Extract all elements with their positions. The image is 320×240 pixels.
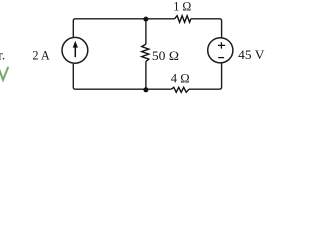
- svg-text:1 Ω: 1 Ω: [173, 0, 191, 14]
- wire: bottom wire left part and bottom-left corner up to current source: [73, 64, 171, 89]
- wire: middle branch upper segment: [145, 19, 147, 44]
- wire: middle branch lower segment: [145, 62, 147, 90]
- svg-text:50 Ω: 50 Ω: [152, 48, 179, 63]
- wire: top wire right part and top-right corner down to voltage source: [191, 19, 222, 38]
- voltage source plus sign: [218, 42, 225, 48]
- node: bottom junction dot: [143, 87, 148, 92]
- svg-text:4 Ω: 4 Ω: [171, 71, 190, 86]
- node: top junction dot: [143, 17, 148, 22]
- current source arrow: [74, 46, 76, 57]
- resistor R2 50-ohm zigzag (middle): [142, 44, 149, 61]
- resistor R3 4-ohm zigzag (bottom): [171, 87, 189, 92]
- svg-text:45 V: 45 V: [238, 47, 265, 62]
- resistor R1 1-ohm zigzag (top): [175, 16, 191, 23]
- current source I1 circle: [62, 37, 88, 63]
- wire: top-left corner and top wire left part: [73, 19, 174, 37]
- wire: voltage source bottom to bottom-right corner: [189, 63, 222, 89]
- svg-text:r.: r.: [0, 47, 5, 62]
- svg-text:2 A: 2 A: [32, 48, 50, 63]
- voltage source minus sign: [218, 57, 224, 59]
- cropped green letter V: [0, 68, 8, 80]
- voltage source V1 circle: [208, 38, 233, 63]
